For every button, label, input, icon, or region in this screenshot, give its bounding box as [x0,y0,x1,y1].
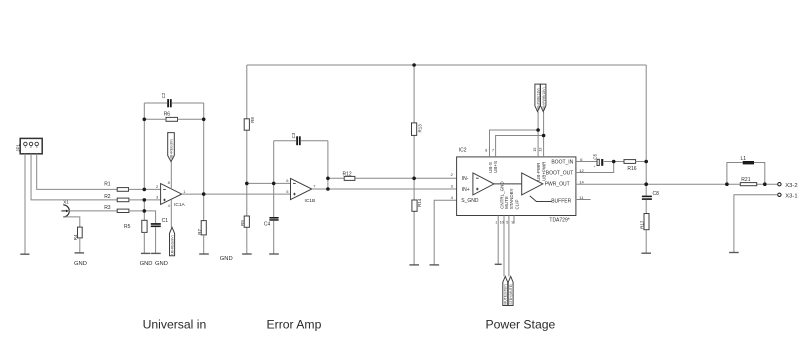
IC2 pin labels left [461,176,479,204]
wire C2 row [144,102,203,104]
svg-text:R6: R6 [164,111,171,117]
wire feedback right vertical [203,103,205,194]
svg-text:R5: R5 [124,224,131,230]
ground (C1) [151,252,161,254]
svg-text:R9: R9 [240,220,245,226]
svg-text:STBY(MUTE): STBY(MUTE) [509,284,513,305]
op-amp IC1A [156,180,186,208]
svg-text:X1: X1 [63,199,69,204]
svg-text:Power Stage: Power Stage [486,318,556,332]
op-amp IC1B [286,178,316,204]
wire PWR_OUT row [576,183,778,185]
resistor R21 [740,177,756,186]
wire C3 C4 vertical [273,141,275,254]
op-amp input stage inside IC2 [473,173,494,195]
resistor R14 [412,198,422,211]
svg-text:IN+: IN+ [462,187,470,193]
ground (C4) [269,253,279,255]
capacitor C1 [151,218,168,227]
ground (R14) [409,264,419,266]
wire X1 tip to R3 [69,210,117,212]
svg-text:Error Amp: Error Amp [267,318,322,332]
svg-text:8: 8 [485,148,487,152]
wire R12 row [328,177,457,179]
wire R2 to IC1A pin3 [129,199,161,201]
wire buffer tap [530,196,552,202]
wire IC1A output row [182,193,291,195]
resistor R1 [104,182,128,192]
wire R13 R14 vertical [413,65,415,265]
wire IC1B pin6 row [247,182,291,184]
jack X1 [61,199,69,217]
svg-text:10: 10 [500,221,504,225]
wire BOOT_OUT row [576,162,614,173]
ground (R5) [141,252,151,254]
capacitor C4 [264,217,279,228]
ground (S_GND) [430,264,440,266]
svg-text:R2: R2 [104,194,111,200]
wire BOOT_IN row [576,161,598,163]
wire R6 row [144,118,203,120]
resistor R3 [104,205,129,212]
resistor R16 [624,160,637,172]
ground (R4) [75,252,85,254]
junction dots output [612,160,767,186]
svg-text:S_GND: S_GND [461,198,479,204]
capacitor C8 [642,191,659,200]
svg-text:C5: C5 [593,153,598,159]
svg-text:15: 15 [533,148,537,152]
flag MUTE below IC2 [503,276,508,305]
supply flag UB-PWR above IC2 [535,84,540,112]
svg-text:GND: GND [155,261,168,267]
svg-text:R3: R3 [104,205,111,211]
resistor R17 [639,214,649,230]
wire IC1A power pin4 [170,200,172,228]
wire R16 to rail vertical [636,161,647,163]
svg-text:PWR_OUT: PWR_OUT [545,182,570,188]
svg-text:13: 13 [539,148,543,152]
wire R17 to ground [645,230,647,254]
svg-text:C2: C2 [161,92,166,98]
svg-text:UB+S: UB+S [493,161,498,173]
svg-text:2: 2 [30,145,32,149]
terminal X3-1 [778,193,798,199]
wire IC2 top supply pins [490,112,544,157]
svg-text:9: 9 [512,221,514,225]
svg-text:IN-: IN- [462,176,469,182]
resistor R13 [412,123,423,135]
wire R3 to node [129,210,144,212]
wire JP1 pin2 to R2 [31,154,117,200]
wire X3-1 to ground [734,195,778,253]
resistor R8 [244,117,255,131]
svg-text:C8: C8 [653,191,660,197]
svg-text:R7: R7 [197,228,202,234]
wire C3 feedback row [274,141,328,189]
svg-text:C1: C1 [162,218,169,224]
wire R4 to ground [79,238,81,253]
svg-text:+: + [594,164,596,168]
svg-text:TDA729*: TDA729* [549,218,569,224]
supply flag UB+REG above IC1A [168,133,175,162]
wire C1 to ground [155,227,157,253]
svg-text:UB+PWR: UB+PWR [541,161,546,181]
svg-text:JP1: JP1 [16,144,21,152]
wire BUFFER stub [576,199,591,201]
wire node to C1 [144,211,155,223]
op-amp power stage inside IC2 [522,173,543,195]
IC2 pin numbers top [485,148,543,153]
wire X1 sleeve to R4 [63,217,80,227]
svg-text:UB+REG(8V): UB+REG(8V) [170,139,174,159]
svg-text:BOOT_OUT: BOOT_OUT [546,171,574,177]
svg-text:MUTE(STBY): MUTE(STBY) [504,284,508,305]
svg-text:R14: R14 [417,198,422,207]
resistor R5 [124,220,147,232]
wire inverting node vertical [143,103,145,189]
junction dots error amp [245,63,416,191]
ground (R9) [242,253,252,255]
wire C5 to R16 [604,161,624,163]
ground (R7) [199,253,209,255]
capacitor C2 [161,92,172,107]
IC2 pin labels bottom rotated [500,181,520,210]
svg-text:Universal in: Universal in [143,318,207,332]
junction dots supply branch [536,128,545,137]
svg-text:IC1A: IC1A [174,202,185,208]
wire JP1 pin1 to ground [24,154,26,254]
ground (R17) [641,252,651,254]
ground (X3-1) [729,252,739,254]
resistor R4 [73,227,82,240]
wire S_GND [434,200,456,265]
connector JP1 [16,138,43,153]
wire noninverting node vertical [143,200,145,220]
svg-text:C4: C4 [264,222,271,228]
flag STANDBY below IC2 [508,276,513,305]
resistor R12 [343,172,355,181]
svg-text:R13: R13 [418,124,423,133]
supply flag UB-REG below IC1A [170,227,175,255]
ground (IC2 pin1) [495,263,502,265]
capacitor C5 [593,153,604,167]
svg-text:C3: C3 [291,132,296,138]
svg-text:IC1B: IC1B [305,198,316,204]
IC2 pin numbers right [579,157,584,200]
svg-text:UB-REG(8V): UB-REG(8V) [171,235,175,255]
inductor L1 [741,156,755,165]
svg-text:7: 7 [492,148,494,152]
supply flag UB+PWR above IC2 [541,84,546,112]
resistor R2 [104,194,129,202]
svg-text:14: 14 [579,179,584,184]
wire IC2 bottom pins [498,216,514,277]
wire supply rail [247,64,646,66]
wire IC1A power pin8 [170,162,172,189]
svg-text:STANDBY: STANDBY [509,188,514,209]
wire R1 to IC1A pin2 [129,188,161,190]
svg-text:GND: GND [74,261,87,267]
wire IC1B output row [312,188,457,190]
wire R7 to ground [203,235,205,254]
svg-text:R4: R4 [73,234,78,240]
svg-text:3: 3 [36,145,38,149]
wire R8 branch vertical [246,65,248,254]
svg-text:R1: R1 [104,182,111,188]
svg-text:X3-2: X3-2 [785,183,797,189]
svg-text:CLIP: CLIP [515,199,520,209]
wire JP1 pin3 to R1 [37,154,118,190]
capacitor C3 [291,132,300,145]
resistor R7 [197,194,207,235]
wire L1 loop [727,163,765,185]
terminal X3-2 [778,183,798,189]
IC2 pin numbers left [451,172,454,200]
svg-text:X3-1: X3-1 [785,194,797,200]
svg-text:1: 1 [495,221,497,225]
IC2 pin labels top rotated [488,161,546,181]
IC2 pin labels right [545,160,574,205]
node A junction dots input stage [143,118,206,213]
resistor R9 [240,216,250,227]
svg-text:GND: GND [140,261,153,267]
svg-text:BOOT_IN: BOOT_IN [551,160,573,166]
wire internal stage link [494,183,522,185]
IC2 pin numbers bottom [495,221,513,225]
svg-text:R8: R8 [250,117,255,123]
svg-text:UB-PWR(18V): UB-PWR(18V) [536,88,540,110]
svg-text:IC2: IC2 [459,148,467,154]
svg-text:1: 1 [24,145,26,149]
IC2 TDA729 body [457,148,576,224]
wire rail right vertical [645,65,647,196]
svg-text:GND: GND [220,256,233,262]
resistor R6 [164,111,178,121]
ground (JP1 pin1) [20,253,29,255]
svg-text:R16: R16 [627,166,636,172]
wire C8 to R17 [645,200,647,214]
svg-text:R17: R17 [639,220,644,229]
wire R5 to ground [143,232,145,253]
svg-text:5: 5 [506,221,508,225]
svg-text:BUFFER: BUFFER [551,198,571,204]
svg-text:UB+PWR(18V): UB+PWR(18V) [542,87,546,110]
